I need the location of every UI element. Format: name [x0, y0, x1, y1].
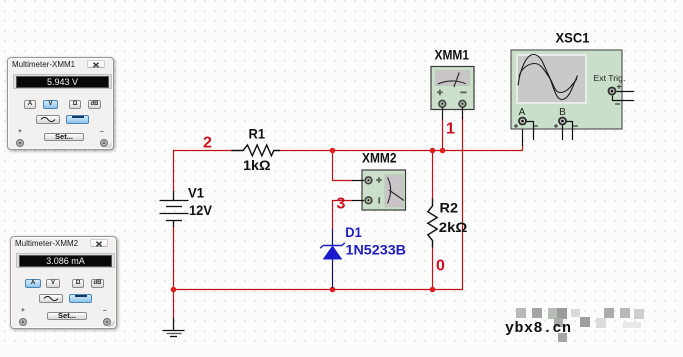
svg-text:A: A	[519, 107, 526, 118]
multimeter icon XMM1	[431, 67, 474, 110]
svg-text:12V: 12V	[189, 202, 213, 218]
multimeter window XMM2	[10, 236, 117, 329]
svg-text:Ext Trig.: Ext Trig.	[594, 73, 626, 83]
svg-text:R2: R2	[440, 200, 459, 216]
wire XMM2 plus branch	[333, 150, 354, 181]
wire scope B minus stub	[567, 122, 573, 141]
junction XMM1 plus dot	[440, 148, 446, 154]
svg-text:V1: V1	[188, 185, 204, 201]
svg-text:2kΩ: 2kΩ	[439, 219, 468, 235]
wire XMM2 minus to D1 node 3	[333, 201, 354, 231]
watermark text	[505, 320, 572, 337]
wire ext trig minus stub	[613, 96, 635, 101]
svg-text:1: 1	[446, 121, 455, 138]
wire R2 top red	[432, 150, 434, 199]
wire R2 bottom red	[432, 247, 434, 290]
svg-text:XMM2: XMM2	[362, 150, 397, 166]
svg-text:3: 3	[337, 196, 346, 213]
zener diode D1	[320, 229, 345, 288]
wire top horizontal left segment node 2	[173, 150, 232, 152]
scope terminal A	[514, 117, 538, 128]
wire XMM1 plus icon stub	[442, 108, 444, 120]
svg-text:R1: R1	[249, 125, 266, 141]
watermark mosaic	[0, 0, 683, 1]
wire scope B plus stub	[562, 126, 564, 141]
svg-text:D1: D1	[345, 224, 362, 240]
wire XMM1 plus vertical red	[442, 119, 444, 150]
junction node 2/R1 dot	[330, 148, 336, 154]
resistor R1	[232, 145, 281, 156]
multimeter window XMM1	[7, 57, 114, 150]
svg-text:XMM1: XMM1	[435, 47, 470, 63]
wire V1 bottom to ground rail	[173, 227, 175, 290]
wire XMM2 plus icon stub	[352, 180, 364, 182]
wire top-left vertical to V1	[173, 150, 175, 191]
scope terminal B	[554, 117, 578, 128]
wire top horizontal right segment node 1	[280, 150, 523, 152]
junction ground rail R2 dot	[430, 287, 436, 293]
svg-text:0: 0	[436, 258, 445, 275]
ground	[163, 318, 185, 337]
svg-text:1N5233B: 1N5233B	[346, 242, 407, 258]
junction R2 top dot	[430, 148, 436, 154]
wire bottom ground rail	[173, 289, 463, 291]
wire XMM1 minus long vertical	[462, 117, 464, 290]
svg-text:2: 2	[203, 135, 212, 152]
resistor R2	[428, 199, 437, 248]
wire scope A minus stub	[527, 122, 534, 141]
ext trig terminal	[608, 85, 622, 105]
svg-text:XSC1: XSC1	[556, 30, 590, 46]
wire XMM1 minus icon stub	[462, 108, 464, 120]
junction ground rail V1 dot	[171, 287, 177, 293]
wire XMM2 minus icon stub	[352, 200, 364, 202]
battery V1	[160, 191, 189, 227]
wire ext trig plus stub	[617, 91, 635, 93]
junction ground rail D1 dot	[330, 287, 336, 293]
wire scope channel A vertical red part	[522, 145, 524, 151]
bottom white strip (workspace edge, no grid)	[0, 346, 683, 357]
oscilloscope XSC1	[511, 50, 622, 129]
svg-text:B: B	[559, 107, 566, 118]
multimeter icon XMM2	[362, 170, 406, 210]
wire scope channel A black stub	[522, 126, 524, 146]
wire ground stem red	[173, 289, 175, 318]
svg-text:1kΩ: 1kΩ	[243, 157, 271, 173]
